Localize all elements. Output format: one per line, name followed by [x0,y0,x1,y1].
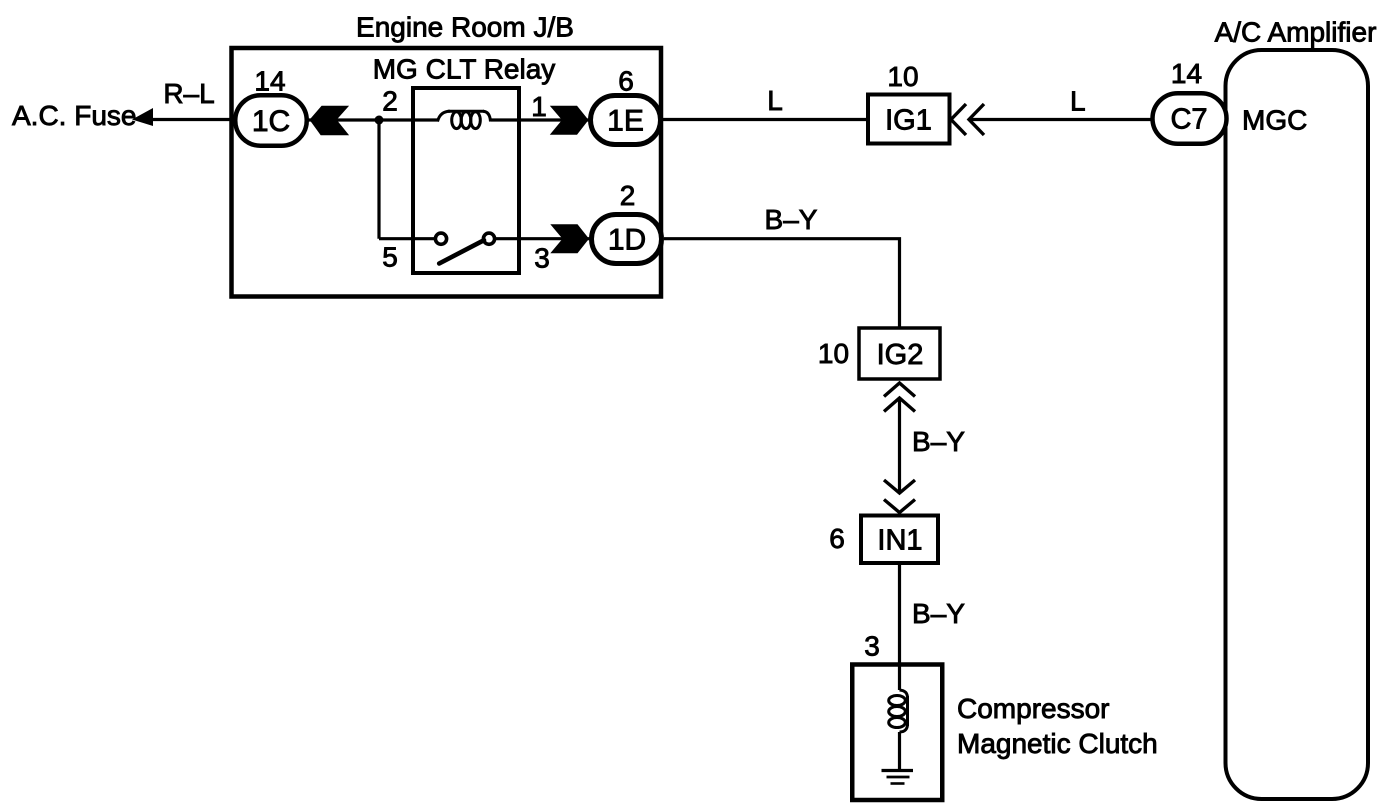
svg-text:1: 1 [531,91,547,122]
svg-text:MG CLT Relay: MG CLT Relay [373,54,556,85]
svg-text:A/C Amplifier: A/C Amplifier [1215,17,1377,48]
svg-text:B–Y: B–Y [765,204,818,235]
svg-text:IG2: IG2 [877,339,924,371]
svg-text:B–Y: B–Y [912,426,965,457]
svg-text:6: 6 [618,66,634,97]
svg-text:1D: 1D [608,224,646,257]
svg-text:10: 10 [887,61,918,92]
svg-text:2: 2 [620,180,636,211]
svg-text:3: 3 [534,243,550,274]
svg-text:Engine Room J/B: Engine Room J/B [356,12,574,43]
svg-text:Magnetic Clutch: Magnetic Clutch [957,728,1158,759]
svg-text:14: 14 [1171,58,1202,89]
svg-text:1E: 1E [607,105,644,138]
svg-text:Compressor: Compressor [957,693,1109,724]
svg-text:6: 6 [829,523,845,554]
svg-text:R–L: R–L [163,78,214,109]
svg-text:B–Y: B–Y [912,598,965,629]
svg-text:14: 14 [254,66,285,97]
svg-text:2: 2 [382,86,398,117]
svg-text:MGC: MGC [1242,105,1307,136]
svg-text:10: 10 [818,338,849,369]
svg-text:1C: 1C [252,105,290,138]
svg-text:3: 3 [864,631,880,662]
svg-text:L: L [767,85,783,116]
svg-text:5: 5 [382,242,398,273]
svg-text:A.C. Fuse: A.C. Fuse [12,100,136,131]
svg-text:IG1: IG1 [885,105,932,137]
svg-text:IN1: IN1 [877,525,922,557]
svg-text:C7: C7 [1170,104,1207,136]
svg-text:L: L [1070,86,1086,117]
